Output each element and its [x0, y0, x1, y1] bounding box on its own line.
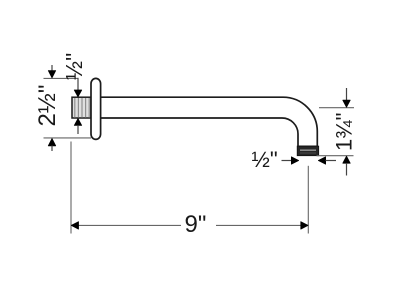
dim 1 3/4in: centerline extension: [319, 107, 354, 109]
dim 1 3/4in: bottom extension: [317, 155, 354, 157]
dim 1/2in wall: top arrow: [74, 78, 81, 97]
escutcheon flange: [91, 78, 101, 139]
dim 9in: right extension line: [307, 166, 309, 234]
dim 1/2in tip: left arrow: [282, 157, 299, 164]
dim 1/2in wall: bottom arrow: [74, 119, 81, 134]
svg-text:9": 9": [185, 211, 207, 238]
outlet threaded tip: [297, 146, 318, 155]
wall-end threaded section: [72, 97, 91, 118]
dim 2 1/2in: bottom extension line: [44, 137, 92, 139]
dim 2 1/2in: bottom arrow: [48, 139, 55, 151]
dim 1/2in tip: right arrow: [318, 157, 336, 164]
dim 1 3/4in: bottom arrow: [343, 156, 350, 175]
dim 9in: left segment with arrow: [71, 222, 181, 229]
dim 2 1/2in: top extension line: [44, 77, 78, 79]
svg-text:1¾": 1¾": [332, 113, 357, 151]
dim 2 1/2in: top arrow: [48, 65, 55, 78]
svg-text:½": ½": [61, 53, 87, 80]
dim 1 3/4in: top arrow: [343, 88, 350, 107]
shower arm pipe body: [99, 97, 317, 146]
svg-text:2½": 2½": [34, 85, 61, 127]
svg-text:½": ½": [252, 147, 278, 172]
dim 9in: right segment with arrow: [216, 222, 308, 229]
dim 9in: left extension line: [70, 142, 72, 234]
